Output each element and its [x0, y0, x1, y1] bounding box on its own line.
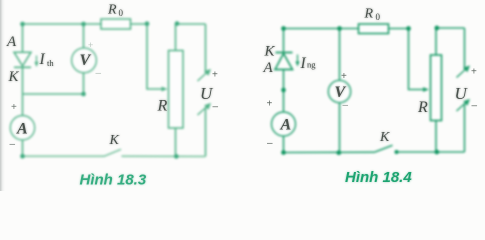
left page-edge scan shading [0, 0, 5, 191]
probe arrow U1 minus [198, 103, 212, 115]
ammeter A2 circle [272, 112, 296, 136]
node: junction dot top-left circuit 2 [281, 26, 286, 31]
svg-text:U: U [455, 84, 469, 103]
node: junction dot potentiometer top [175, 21, 180, 26]
wire diode branch upper [22, 24, 24, 52]
svg-text:Hình 18.4: Hình 18.4 [345, 169, 412, 186]
node: junction dot voltmeter 2 top [337, 26, 342, 31]
svg-text:K: K [379, 130, 390, 145]
node: junction dot bottom-left [20, 154, 25, 159]
wire U minus lead [205, 108, 207, 157]
wire top rail left segment (node A1 to R0) [23, 23, 102, 25]
ammeter A1 circle [10, 116, 34, 140]
switch K1 blade [104, 149, 121, 156]
resistor R0 (left circuit) body [101, 19, 131, 29]
switch K2 blade [375, 145, 393, 152]
voltmeter V1 circle [72, 48, 97, 73]
wire diode branch upper circuit 2 [283, 29, 285, 53]
node: junction dot below diode 2 [281, 88, 286, 93]
svg-text:R: R [107, 3, 117, 18]
probe arrow U2 minus [457, 99, 471, 111]
probe arrow U2 plus [457, 65, 471, 77]
svg-text:V: V [335, 84, 347, 101]
wire U2 plus lead [464, 28, 466, 70]
node: junction dot top-left [20, 22, 25, 27]
wire diode branch lower (to ammeter) [22, 67, 24, 116]
node: junction dot voltmeter top [81, 22, 86, 27]
wire from R0 down to wiper [147, 24, 164, 89]
svg-text:+: + [267, 99, 273, 110]
voltmeter V2 circle [328, 80, 350, 102]
svg-text:–: – [10, 139, 16, 150]
wire bottom rail right segment [122, 155, 206, 157]
potentiometer R (right circuit) body [431, 55, 442, 121]
svg-text:R: R [417, 99, 428, 116]
svg-text:K: K [109, 133, 120, 148]
wire voltmeter 2 branch lower [339, 103, 341, 153]
node: junction dot voltmeter 2 bottom [336, 150, 341, 155]
svg-text:–: – [343, 100, 349, 111]
svg-text:0: 0 [376, 12, 381, 22]
svg-text:I: I [300, 55, 307, 72]
wire top rail left segment circuit 2 [284, 28, 359, 30]
svg-text:A: A [263, 60, 274, 76]
svg-text:R: R [157, 98, 168, 115]
wire potentiometer bottom to rail [175, 128, 177, 156]
diode D2 cathode bar [276, 52, 293, 54]
wire potentiometer 2 top to rail [436, 28, 465, 55]
node: junction dot potentiometer bottom [174, 154, 179, 159]
wire voltmeter branch upper [83, 24, 85, 48]
wire from R0 down to wiper circuit 2 [409, 29, 426, 90]
svg-text:Hình 18.3: Hình 18.3 [80, 172, 147, 189]
diode D1 triangle (anode up) [14, 52, 31, 66]
svg-text:+: + [11, 102, 17, 113]
diode D2 triangle (cathode up) [275, 54, 293, 70]
svg-text:I: I [39, 51, 46, 68]
wire top rail right of R0 circuit 2 [389, 28, 409, 30]
svg-text:V: V [80, 52, 92, 69]
node: junction dot potentiometer 2 bottom [434, 150, 439, 155]
wire diode branch lower circuit 2 [283, 70, 285, 112]
diode D1 cathode bar [14, 66, 31, 68]
wiper arrowhead into R (right circuit) [423, 87, 429, 92]
wire potentiometer top to rail [176, 24, 206, 51]
wire ammeter to bottom rail [22, 139, 24, 156]
node: junction dot potentiometer 2 top [434, 26, 439, 31]
node: junction dot voltmeter bottom [81, 92, 86, 97]
svg-text:A: A [6, 34, 17, 50]
svg-text:+: + [212, 70, 218, 81]
svg-text:–: – [472, 101, 478, 112]
svg-text:+: + [88, 40, 93, 50]
wire bottom rail left segment circuit 2 [284, 151, 376, 153]
svg-text:+: + [341, 71, 347, 82]
wiper arrowhead into R [162, 87, 168, 92]
wire voltmeter 2 branch upper [339, 29, 341, 81]
wire ammeter 2 to bottom rail [283, 136, 285, 152]
svg-text:th: th [47, 58, 54, 68]
svg-text:ng: ng [307, 60, 316, 70]
svg-text:A: A [280, 117, 292, 134]
wire voltmeter branch lower [83, 73, 85, 94]
wire voltmeter tap (horizontal) [23, 93, 84, 95]
resistor R0 (right circuit) body [359, 24, 389, 34]
wire bottom rail left segment (to switch) [23, 155, 105, 157]
svg-text:+: + [471, 67, 477, 78]
svg-text:R: R [364, 7, 374, 22]
wire bottom rail right segment circuit 2 [397, 151, 465, 153]
current arrow I_th [34, 56, 38, 68]
svg-text:–: – [96, 68, 102, 79]
node: junction dot R0 right end circuit 2 [406, 26, 411, 31]
probe arrow U1 plus [198, 69, 212, 81]
node: switch 2 right contact dot [395, 150, 399, 154]
potentiometer R (left circuit) body [169, 51, 184, 129]
current arrow I_ng [295, 55, 299, 67]
node: junction dot R0 right end [145, 21, 150, 26]
svg-text:K: K [264, 44, 276, 60]
wire U2 minus lead [464, 104, 466, 153]
svg-text:A: A [16, 121, 28, 138]
wire top rail right of R0 [131, 23, 148, 25]
svg-text:U: U [200, 84, 214, 103]
svg-text:–: – [213, 102, 219, 113]
svg-text:0: 0 [119, 8, 124, 18]
node: junction dot bottom-left circuit 2 [281, 150, 286, 155]
wire U plus lead [205, 24, 207, 73]
svg-text:–: – [267, 138, 273, 149]
wire potentiometer 2 bottom to rail [435, 121, 437, 153]
svg-text:K: K [8, 69, 20, 85]
